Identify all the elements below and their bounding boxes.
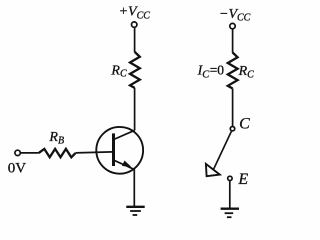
wire emitter to ground — [133, 170, 135, 207]
wire input to RB — [21, 152, 39, 154]
ground left — [126, 207, 144, 215]
ground right — [221, 209, 239, 218]
wire Vcc to RC — [134, 27, 136, 52]
transistor Q1 circle — [96, 127, 143, 174]
svg-text:C: C — [239, 116, 250, 133]
terminal -Vcc — [230, 23, 235, 28]
wire -Vcc to RC — [232, 29, 234, 53]
wire RC to collector — [134, 88, 136, 130]
svg-text:0V: 0V — [8, 161, 27, 177]
transistor Q1 emitter arrow — [123, 161, 131, 166]
wire RB to base — [76, 152, 113, 153]
resistor RC left — [130, 52, 140, 88]
transistor Q1 base bar — [112, 133, 115, 166]
resistor RB — [39, 149, 76, 157]
node C — [230, 127, 234, 131]
resistor RC right — [228, 53, 238, 89]
terminal +Vcc — [132, 22, 137, 27]
transistor Q1 collector lead — [114, 130, 135, 139]
svg-text:E: E — [237, 171, 248, 188]
open switch arm — [214, 131, 232, 169]
wire RC to node C — [232, 89, 234, 127]
node E — [228, 176, 232, 180]
open switch arrowhead — [206, 164, 220, 176]
input terminal 0V — [15, 150, 20, 155]
transistor Q1 emitter lead — [114, 160, 135, 170]
wire node E to ground — [229, 181, 231, 208]
